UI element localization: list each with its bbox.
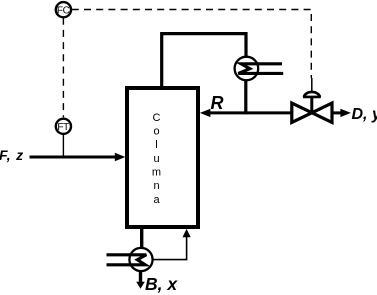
bottoms line to reboiler	[140, 227, 143, 249]
svg-text:FC: FC	[57, 5, 70, 16]
svg-text:B, x: B, x	[145, 274, 178, 294]
reflux line from condenser	[200, 80, 293, 117]
condenser	[235, 57, 284, 81]
svg-text:FT: FT	[57, 122, 69, 133]
column	[127, 88, 198, 227]
boilup return line	[152, 229, 190, 260]
svg-text:C: C	[153, 112, 161, 124]
reboiler	[107, 248, 153, 271]
svg-text:o: o	[153, 126, 159, 138]
transmitter FT	[56, 119, 71, 134]
label Columna (vertical)	[152, 112, 161, 206]
bottoms product arrow B	[136, 271, 145, 289]
overhead vapor line	[162, 34, 246, 88]
control valve	[292, 92, 332, 123]
signal line FC to FT (dashed)	[62, 18, 64, 118]
distillate line D	[332, 109, 351, 117]
signal line FC to valve (dashed)	[72, 10, 311, 79]
controller FC	[56, 2, 71, 17]
svg-text:n: n	[153, 180, 159, 192]
valve actuator stem	[311, 78, 313, 92]
svg-text:u: u	[153, 153, 159, 165]
svg-text:m: m	[152, 167, 161, 179]
svg-text:a: a	[153, 194, 160, 206]
sensing line FT to feed line	[62, 135, 64, 157]
svg-text:l: l	[155, 139, 157, 151]
svg-text:F, z: F, z	[0, 147, 24, 163]
svg-text:R: R	[211, 93, 224, 113]
feed line F	[30, 153, 126, 161]
svg-text:D, y: D, y	[352, 106, 377, 123]
